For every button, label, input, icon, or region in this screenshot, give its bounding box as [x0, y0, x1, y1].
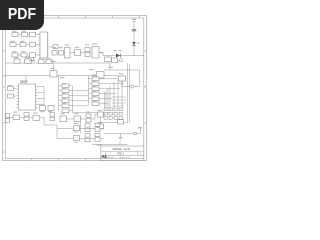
wire lower rail [104, 128, 141, 134]
wire ladder right rail [88, 76, 90, 105]
capacitor C4 [25, 57, 32, 63]
capacitor C8 [85, 53, 90, 57]
diode D7 [95, 123, 100, 131]
capacitor C11 [40, 106, 46, 113]
title block rev cell line [137, 151, 139, 155]
buffer U2a [30, 32, 36, 37]
svg-text:2: 2 [3, 75, 5, 78]
resistor R1 [12, 31, 18, 37]
title block sheet cell line [119, 155, 121, 158]
label under D9 [97, 144, 103, 147]
resistor R20 [118, 120, 124, 125]
resistor R23 [74, 113, 81, 121]
wire cross links [73, 91, 89, 106]
IC U3 driver [39, 32, 50, 58]
VCC rail symbol [132, 22, 136, 56]
capacitor C9 on rail [132, 29, 136, 31]
wire bus B horizontal [5, 75, 118, 77]
net label bus A left [29, 59, 35, 62]
svg-text:WDG11 - A1 M: WDG11 - A1 M [113, 147, 130, 151]
title block size cell line [105, 151, 107, 158]
capacitor C3 [14, 57, 20, 63]
svg-text:2: 2 [144, 85, 146, 88]
resistor R3 [10, 41, 16, 47]
wire row link vertical [80, 122, 82, 134]
resistor RN1a [59, 84, 73, 88]
wire harness striping [112, 97, 126, 106]
wire row A right [67, 115, 98, 120]
resistor RN1d [59, 99, 73, 103]
wire junction riser x110 [109, 63, 111, 70]
wire bus A horizontal [5, 62, 110, 64]
resistor RN2c [89, 87, 103, 91]
IC U5 latch [89, 69, 104, 78]
title block row line 1 [101, 150, 144, 152]
resistor RN2f [92, 102, 103, 106]
diode D5 [86, 112, 91, 122]
svg-text:ATD 1: ATD 1 [117, 153, 125, 156]
sheet border inner frame [5, 18, 144, 159]
wire relay out [122, 81, 131, 87]
transistor T1 [60, 113, 67, 121]
IC U4 latch [50, 63, 57, 77]
resistor RN2d [89, 92, 103, 96]
diode D1 [132, 42, 139, 46]
title block outer [101, 146, 144, 161]
diode D2 [114, 50, 122, 57]
wire top right feeder [104, 70, 140, 87]
resistor R22 [33, 113, 40, 121]
sheet border outer frame [3, 15, 147, 160]
resistor RN1c [59, 94, 73, 98]
IC U10B [92, 44, 103, 58]
display matrix row 2 [104, 112, 122, 115]
wire bottom right links [101, 115, 128, 125]
display matrix risers [105, 79, 123, 108]
svg-text:4: 4 [3, 151, 5, 154]
capacitor C6 [46, 58, 52, 64]
ground GND1 [119, 134, 123, 141]
connector pin P3 [134, 127, 142, 135]
resistor RN2b [89, 82, 103, 86]
wire vertical bus pair right [128, 63, 130, 122]
buffer U2c [30, 53, 36, 58]
connector pin P1 [118, 59, 123, 62]
wire row A [10, 118, 58, 139]
resistor RN2e [89, 97, 103, 101]
wire ladder right fan [103, 79, 125, 104]
title block row line 2 [101, 154, 144, 156]
capacitor C14 [98, 122, 104, 129]
label net name top right [109, 66, 114, 69]
relay RL1 [119, 73, 126, 81]
transistor T2 [74, 123, 80, 132]
border grid ticks right [144, 51, 147, 123]
border grid ticks bottom [32, 159, 86, 161]
transistor T3 [74, 136, 80, 143]
capacitor C13 [98, 110, 104, 117]
ladder ref dashes left [63, 83, 66, 103]
wire MCU right fan [38, 87, 45, 113]
resistor RN1b [59, 89, 73, 93]
label RN2 [92, 74, 97, 77]
wire row B2 [57, 138, 104, 140]
capacitor C5 [39, 58, 45, 64]
resistor RN1f [62, 109, 73, 113]
VCC label [132, 19, 136, 20]
resistor R16 [105, 56, 112, 62]
capacitor C12 [48, 106, 54, 113]
border grid ticks left [3, 51, 6, 123]
connector J1 [6, 114, 10, 123]
display matrix row 3 [104, 116, 122, 119]
capacitor C7 [85, 44, 90, 51]
resistor R17 [112, 58, 118, 63]
resistor R21 [13, 112, 20, 120]
PDF badge [0, 0, 44, 30]
resistor R8 [59, 47, 64, 55]
resistor RN1e [59, 104, 73, 108]
resistor RN2a [89, 77, 103, 81]
wire ladder left rail [58, 76, 60, 110]
IC U1 MCU [17, 76, 38, 110]
resistor R4 [20, 41, 26, 47]
crystal Y1 [8, 85, 17, 91]
diode D3 [24, 113, 29, 121]
wire row B1 [57, 128, 104, 130]
wire cluster TL links [16, 35, 53, 56]
label RN1 [60, 76, 65, 79]
diode D8 [85, 134, 90, 142]
diode D4 [50, 113, 55, 121]
capacitor C10 [8, 94, 17, 98]
IC U2A gate [65, 45, 71, 58]
resistor R6 [21, 51, 27, 57]
wire lower collector rail [92, 142, 128, 145]
connector pin P2 [131, 85, 139, 88]
wire ladder left fan [73, 86, 111, 113]
resistor R7 [52, 47, 57, 55]
border grid ticks top [32, 15, 140, 18]
ladder ref dashes right [93, 76, 96, 101]
wire output rail [103, 55, 144, 57]
resistor R5 [12, 51, 18, 57]
buffer U2b [30, 42, 36, 47]
net label bus A mid [51, 60, 56, 63]
display matrix row 1 [104, 108, 122, 111]
resistor R2 [22, 31, 28, 37]
svg-text:Sheet 1 of 1: Sheet 1 of 1 [122, 156, 131, 159]
capacitor C2 [53, 45, 58, 49]
wire top middle links [57, 53, 103, 56]
crystal X1 [75, 47, 81, 56]
capacitor C1 [29, 57, 34, 61]
diode D6 [85, 122, 90, 132]
diode D9 [95, 133, 100, 141]
